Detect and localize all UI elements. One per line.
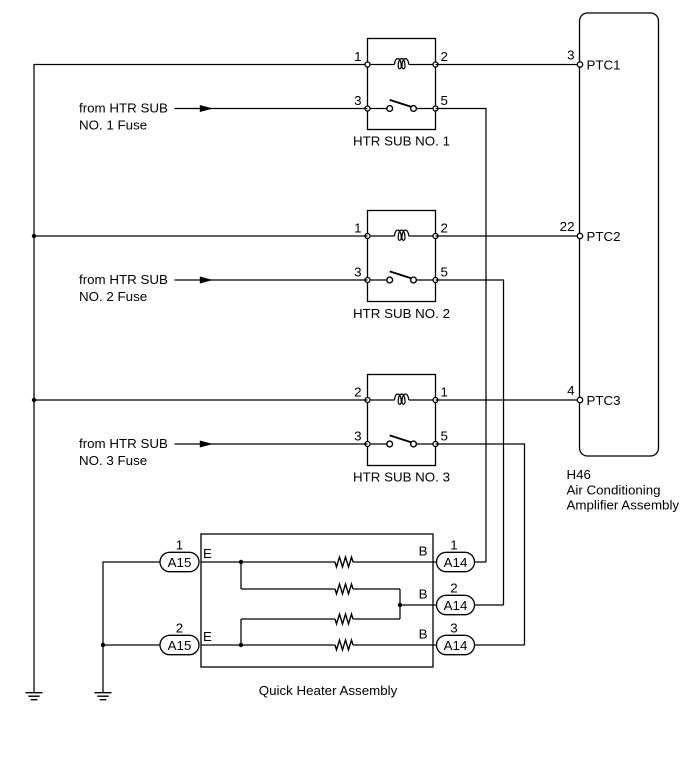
svg-text:3: 3 <box>354 93 361 108</box>
wire A14 pin 2 stub <box>475 604 504 606</box>
svg-text:22: 22 <box>560 219 575 234</box>
pin relay 1 terminal 2 <box>433 62 438 67</box>
node junction B2 tap <box>398 603 402 607</box>
resistor heater element 4 <box>335 640 353 650</box>
switch relay 3 blade <box>390 435 412 442</box>
ground G2 <box>95 693 112 700</box>
pin relay 3 terminal 1 <box>433 398 438 403</box>
connector H46 Air Conditioning Amplifier Assembly body <box>580 13 659 456</box>
wire bus to relay 2 pin 1 <box>34 235 368 237</box>
wire feed 1 from HTR SUB NO.1 fuse to relay 1 pin 3 <box>175 108 368 110</box>
connector A15 pin 2 body <box>160 635 199 654</box>
node junction bus to PTC2 row <box>32 234 36 238</box>
pin relay 1 terminal 3 <box>365 106 370 111</box>
svg-text:3: 3 <box>354 429 361 444</box>
svg-text:2: 2 <box>450 581 457 596</box>
svg-text:B: B <box>419 587 428 602</box>
switch relay 3 contact right <box>411 441 417 447</box>
svg-text:1: 1 <box>450 538 457 553</box>
inductor relay 2 coil <box>395 230 409 240</box>
svg-text:1: 1 <box>354 221 361 236</box>
wire B2 tap to A14 pin 2 <box>400 604 437 606</box>
arrow feed 1 <box>200 105 213 112</box>
svg-text:1: 1 <box>176 538 183 553</box>
wire bus to relay 3 pin 2 <box>34 399 368 401</box>
svg-text:PTC3: PTC3 <box>587 393 621 408</box>
pin relay 2 terminal 2 <box>433 234 438 239</box>
pin H46 PTC3 terminal <box>577 397 582 402</box>
pin relay 3 terminal 5 <box>433 442 438 447</box>
resistor heater element 3 <box>335 614 353 624</box>
svg-text:HTR SUB NO. 1: HTR SUB NO. 1 <box>353 134 450 149</box>
wire relay 1 switch row right segment <box>416 108 435 110</box>
svg-text:NO. 3 Fuse: NO. 3 Fuse <box>79 453 147 468</box>
svg-text:3: 3 <box>354 265 361 280</box>
wire relay 3 pin 1 to PTC3 <box>436 399 581 401</box>
pin relay 3 terminal 3 <box>365 442 370 447</box>
svg-text:from HTR SUB: from HTR SUB <box>79 272 168 287</box>
pin relay 1 terminal 5 <box>433 106 438 111</box>
node junction row 4 <box>239 643 243 647</box>
svg-text:2: 2 <box>176 621 183 636</box>
connector A14 pin 1 body <box>437 552 475 571</box>
svg-text:Quick Heater Assembly: Quick Heater Assembly <box>259 683 398 698</box>
wire relay 2 pin 2 to PTC2 <box>436 235 581 237</box>
svg-text:5: 5 <box>441 429 448 444</box>
wire relay 2 switch row left segment <box>368 279 387 281</box>
svg-text:A14: A14 <box>444 555 468 570</box>
wire relay 1 switch row left segment <box>368 108 387 110</box>
inductor relay 3 coil <box>395 394 409 404</box>
node junction row 1 to row 2 <box>239 560 243 564</box>
svg-text:2: 2 <box>441 49 448 64</box>
switch relay 1 contact right <box>411 106 417 112</box>
connector A14 pin 2 body <box>437 595 475 614</box>
svg-text:NO. 2 Fuse: NO. 2 Fuse <box>79 289 147 304</box>
relay HTR SUB NO. 2 body <box>368 211 436 302</box>
wire A15 pin 1 to ground bus <box>103 562 160 645</box>
svg-text:4: 4 <box>567 383 575 398</box>
svg-text:2: 2 <box>441 221 448 236</box>
wire heater row 3 segments <box>241 618 400 620</box>
wire relay 1 coil row segments <box>368 64 436 66</box>
svg-text:B: B <box>419 627 428 642</box>
switch relay 2 contact left <box>387 277 393 283</box>
switch relay 1 blade <box>390 100 412 107</box>
pin H46 PTC1 terminal <box>577 62 582 67</box>
svg-text:A15: A15 <box>168 638 192 653</box>
wire A15 pin 2 to ground <box>103 645 160 692</box>
wire row 2 right end down to row 3 <box>399 589 401 619</box>
arrow feed 3 <box>200 441 213 448</box>
connector A14 pin 3 body <box>437 635 475 654</box>
pin relay 2 terminal 5 <box>433 278 438 283</box>
svg-text:PTC2: PTC2 <box>587 229 621 244</box>
wire feed 2 from HTR SUB NO.2 fuse to relay 2 pin 3 <box>175 279 368 281</box>
svg-text:from HTR SUB: from HTR SUB <box>79 101 168 116</box>
wire relay 3 pin 5 to A14 pin 3 <box>436 444 525 645</box>
svg-text:E: E <box>203 629 212 644</box>
node junction A15 ground bus <box>101 643 105 647</box>
switch relay 2 contact right <box>411 277 417 283</box>
svg-text:B: B <box>419 544 428 559</box>
pin relay 1 terminal 1 <box>365 62 370 67</box>
wire relay 1 pin 5 to A14 pin 1 <box>436 109 487 563</box>
ground G1 <box>26 693 43 700</box>
pin H46 PTC2 terminal <box>577 233 582 238</box>
connector A15 pin 1 body <box>160 552 199 571</box>
svg-text:from HTR SUB: from HTR SUB <box>79 436 168 451</box>
svg-text:E: E <box>203 546 212 561</box>
wire heater row 1 E to B segments <box>201 561 437 563</box>
switch relay 1 contact left <box>387 106 393 112</box>
svg-text:A15: A15 <box>168 555 192 570</box>
wire relay 2 pin 5 to A14 pin 2 <box>436 280 504 605</box>
svg-text:NO. 1 Fuse: NO. 1 Fuse <box>79 118 147 133</box>
relay HTR SUB NO. 1 body <box>368 39 436 130</box>
resistor heater element 1 <box>335 557 353 567</box>
svg-text:3: 3 <box>567 48 574 63</box>
svg-text:2: 2 <box>354 385 361 400</box>
relay HTR SUB NO. 3 body <box>368 375 436 466</box>
svg-text:H46: H46 <box>567 467 591 482</box>
svg-text:PTC1: PTC1 <box>587 58 621 73</box>
node junction bus to PTC3 row <box>32 398 36 402</box>
switch relay 3 contact left <box>387 441 393 447</box>
wire row 1 junction down to row 2 <box>240 562 242 589</box>
svg-text:1: 1 <box>354 49 361 64</box>
wire relay 1 pin 2 to PTC1 <box>436 64 581 66</box>
pin relay 2 terminal 1 <box>365 234 370 239</box>
svg-text:3: 3 <box>450 621 457 636</box>
svg-text:A14: A14 <box>444 598 468 613</box>
wire feed 3 from HTR SUB NO.3 fuse to relay 3 pin 3 <box>175 443 368 445</box>
svg-text:HTR SUB NO. 2: HTR SUB NO. 2 <box>353 306 450 321</box>
resistor heater element 2 <box>335 584 353 594</box>
pin relay 3 terminal 2 <box>365 398 370 403</box>
wire left bus from relay rows to ground <box>34 65 368 693</box>
wire A14 pin 3 stub <box>475 644 525 646</box>
wire row 3 left end down to row 4 <box>240 619 242 645</box>
svg-text:Air Conditioning: Air Conditioning <box>567 482 661 497</box>
wire heater row 2 segments <box>241 588 400 590</box>
svg-text:1: 1 <box>441 385 448 400</box>
wire heater row 4 E to B segments <box>201 644 437 646</box>
svg-text:5: 5 <box>441 265 448 280</box>
svg-text:HTR SUB NO. 3: HTR SUB NO. 3 <box>353 470 450 485</box>
svg-text:A14: A14 <box>444 638 468 653</box>
wire relay 3 coil row segments <box>368 399 436 401</box>
wire relay 2 switch row right segment <box>416 279 435 281</box>
svg-text:Amplifier Assembly: Amplifier Assembly <box>567 498 680 513</box>
inductor relay 1 coil <box>395 59 409 69</box>
wire relay 3 switch row right segment <box>416 443 435 445</box>
arrow feed 2 <box>200 277 213 284</box>
svg-text:5: 5 <box>441 93 448 108</box>
wire relay 3 switch row left segment <box>368 443 387 445</box>
pin relay 2 terminal 3 <box>365 278 370 283</box>
heater Quick Heater Assembly body <box>201 534 433 667</box>
switch relay 2 blade <box>390 271 412 278</box>
wire A14 pin 1 stub <box>475 561 487 563</box>
wire relay 2 coil row segments <box>368 235 436 237</box>
